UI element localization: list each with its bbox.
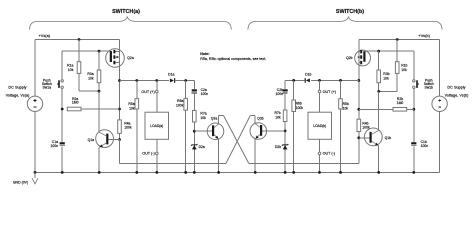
svg-text:1M0: 1M0 <box>397 101 404 105</box>
svg-text:Q2a: Q2a <box>127 56 134 60</box>
svg-text:10k: 10k <box>401 68 407 72</box>
svg-text:SWITCH(a): SWITCH(a) <box>112 9 140 15</box>
svg-text:100n: 100n <box>275 92 283 96</box>
svg-text:D2a: D2a <box>199 145 205 149</box>
svg-text:10k: 10k <box>200 116 206 120</box>
svg-text:LOAD(a): LOAD(a) <box>150 124 163 128</box>
svg-text:Sw1a: Sw1a <box>43 86 52 90</box>
svg-text:D1a: D1a <box>168 72 174 76</box>
svg-text:R1b: R1b <box>401 64 407 68</box>
svg-text:Sw1b: Sw1b <box>424 86 433 90</box>
svg-text:Voltage, Vs(a): Voltage, Vs(a) <box>6 93 31 97</box>
svg-text:R4a: R4a <box>124 121 130 125</box>
svg-text:R7b: R7b <box>274 111 280 115</box>
svg-text:R6a: R6a <box>177 99 183 103</box>
svg-text:+Vs(b): +Vs(b) <box>418 33 430 38</box>
svg-text:R4b: R4b <box>362 121 368 125</box>
svg-text:D2b: D2b <box>275 145 281 149</box>
svg-text:Q3a: Q3a <box>211 116 218 120</box>
svg-text:Q2b: Q2b <box>346 56 353 60</box>
svg-text:100k: 100k <box>296 106 304 110</box>
svg-text:Voltage, Vs(b): Voltage, Vs(b) <box>445 93 470 97</box>
svg-text:Q1a: Q1a <box>88 138 95 142</box>
svg-text:100n: 100n <box>50 144 58 148</box>
svg-text:10k: 10k <box>68 68 74 72</box>
svg-text:R6b: R6b <box>296 102 302 106</box>
svg-text:OUT (+): OUT (+) <box>323 90 336 94</box>
svg-text:10k: 10k <box>275 115 281 119</box>
svg-text:LOAD(b): LOAD(b) <box>313 124 326 128</box>
svg-text:DC Supply: DC Supply <box>8 86 26 90</box>
svg-text:100k: 100k <box>124 126 132 130</box>
svg-text:R1a: R1a <box>67 64 73 68</box>
svg-text:Q1b: Q1b <box>385 136 392 140</box>
svg-text:OUT (-): OUT (-) <box>323 152 335 156</box>
svg-text:10k: 10k <box>88 77 94 81</box>
svg-text:100n: 100n <box>201 92 209 96</box>
svg-text:D1b: D1b <box>305 72 311 76</box>
svg-text:R3a: R3a <box>87 72 93 76</box>
svg-text:10k: 10k <box>343 106 349 110</box>
svg-text:Note:: Note: <box>200 52 209 56</box>
svg-text:+Vs(a): +Vs(a) <box>39 33 51 38</box>
svg-text:1M0: 1M0 <box>72 101 79 105</box>
svg-text:OUT (+): OUT (+) <box>141 90 154 94</box>
svg-text:SWITCH(b): SWITCH(b) <box>336 9 364 15</box>
svg-text:100k: 100k <box>176 104 184 108</box>
svg-text:R5a, R5b: optional components,: R5a, R5b: optional components, see text. <box>200 57 266 61</box>
svg-text:OUT (-): OUT (-) <box>142 152 154 156</box>
svg-text:10k: 10k <box>383 77 389 81</box>
svg-text:GND (0V): GND (0V) <box>13 181 28 185</box>
svg-text:DC Supply: DC Supply <box>447 86 465 90</box>
svg-text:R3b: R3b <box>383 72 389 76</box>
svg-text:Q3b: Q3b <box>257 116 264 120</box>
svg-text:R7a: R7a <box>200 112 206 116</box>
svg-text:100n: 100n <box>421 144 429 148</box>
svg-text:10k: 10k <box>129 106 135 110</box>
